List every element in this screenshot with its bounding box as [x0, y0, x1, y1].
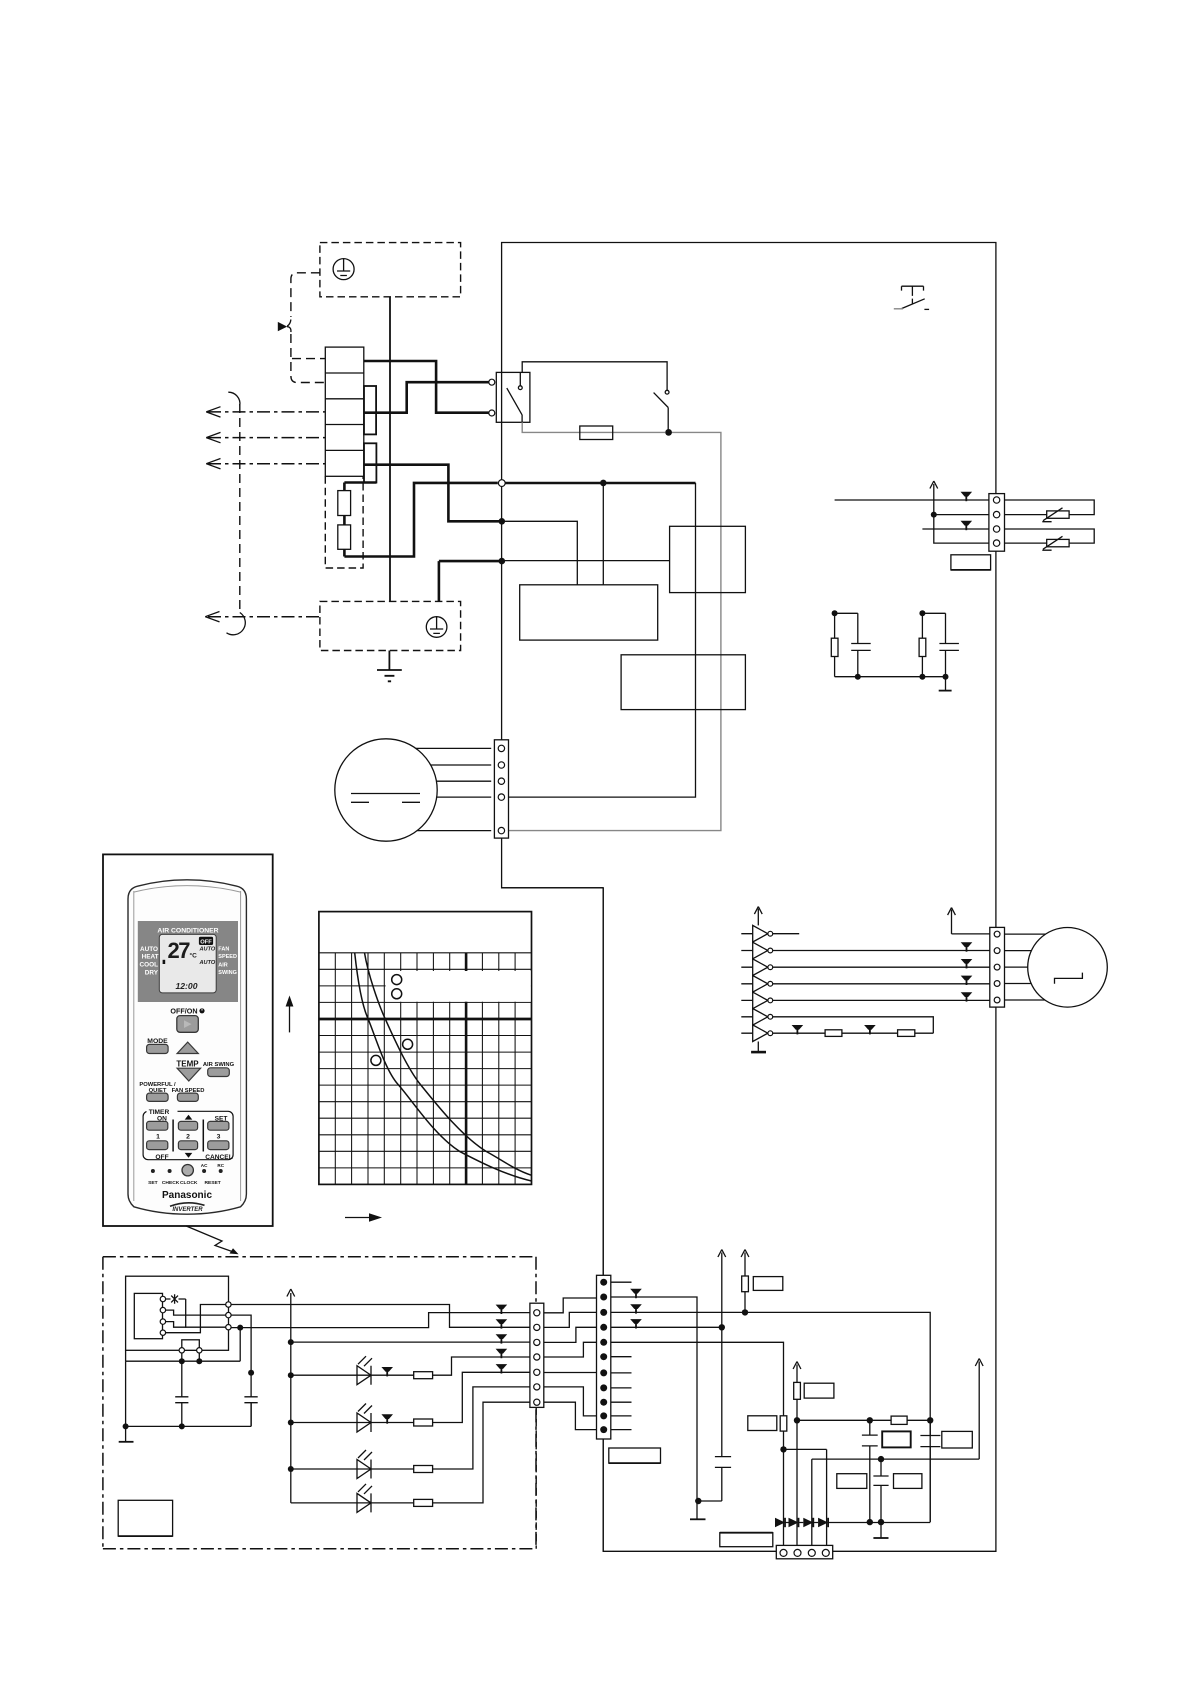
indoor unit PCB main outline [502, 243, 996, 1552]
separators [173, 1120, 203, 1152]
svg-text:RESET: RESET [204, 1180, 220, 1186]
junction switch/fuse node [665, 429, 672, 436]
svg-text:OFF: OFF [155, 1154, 168, 1161]
junction thermistor row2 [931, 512, 937, 518]
CN-MAIN pin4 wire [611, 1326, 722, 1328]
indoor unit earth dashed box (bottom) [320, 601, 461, 650]
junction arrowB/pin3 [742, 1309, 748, 1315]
protective earth symbol (top box) [333, 259, 354, 280]
wire L terminal to switch lower pin [364, 361, 489, 413]
svg-text:AUTO: AUTO [199, 946, 216, 952]
junction on PCB edge 2 [499, 558, 506, 565]
thermistor wires left [835, 500, 989, 543]
up mark [185, 1115, 193, 1120]
wire fuse chain to relay input [344, 483, 497, 557]
oscillator series resistor [891, 1416, 907, 1424]
junction cap return [695, 1498, 701, 1504]
snubber C1 [835, 613, 871, 676]
fuse F3 [580, 426, 613, 440]
operation range chart [319, 912, 532, 1185]
snubber ground [939, 677, 952, 691]
power relay switch box [496, 372, 530, 422]
vcc filter line [812, 1459, 979, 1522]
svg-text:CANCEL: CANCEL [205, 1154, 232, 1161]
LED resistor R4 [414, 1499, 433, 1506]
power box B2 [621, 655, 745, 710]
surge marker near CN [496, 1364, 508, 1369]
display connector CN-DISP [530, 1303, 544, 1407]
svg-text:2: 2 [186, 1134, 190, 1141]
TEMP down button [177, 1068, 201, 1081]
LED resistor R3 [414, 1466, 433, 1473]
filter cap pair [873, 1459, 888, 1522]
thermistor sensor loop 1 [1005, 500, 1095, 515]
snubber common rail [835, 676, 946, 678]
loop resistor Ra [825, 1030, 842, 1037]
svg-text:AIR SWING: AIR SWING [203, 1062, 235, 1068]
thermistor TH1 [1042, 508, 1069, 522]
junction arrowA/pin4 [719, 1324, 725, 1330]
POWERFUL button [147, 1093, 169, 1101]
svg-text:AIR CONDITIONER: AIR CONDITIONER [157, 928, 218, 935]
label box filter left [837, 1474, 867, 1489]
label box arrow B [753, 1277, 783, 1291]
wire module pin1 to CN pin2 [231, 1305, 530, 1328]
stepper motor connector CN-STM [990, 927, 1005, 1007]
snubber R1 [831, 613, 838, 676]
CN-MAIN pin2 wire to ground [611, 1297, 697, 1519]
dashed earth lead from top box to terminals [291, 273, 320, 317]
air swing stepper motor M2 [1028, 928, 1108, 1008]
loop resistor Rb [898, 1030, 915, 1037]
fuse F2 [338, 516, 351, 557]
svg-text:AIR: AIR [218, 962, 228, 968]
TEMP up button [177, 1042, 198, 1053]
svg-text:3: 3 [217, 1134, 221, 1141]
junction key node [780, 1446, 786, 1452]
LED D3 row [291, 1387, 530, 1469]
fan motor FM [335, 739, 437, 841]
LED resistor R1 [414, 1372, 433, 1379]
small service buttons [151, 1169, 155, 1173]
svg-text:RC: RC [217, 1163, 224, 1168]
buffer gate U7 [741, 1025, 772, 1042]
svg-text:INVERTER: INVERTER [172, 1207, 203, 1213]
relay pin upper [489, 379, 495, 385]
module edge pins [226, 1302, 231, 1307]
label box bottom-left [118, 1500, 172, 1536]
key matrix diodes [775, 1518, 930, 1527]
thermistor sensor loop 2 [1005, 529, 1095, 543]
label box reset resistor [804, 1383, 834, 1398]
chart x axis arrow [345, 1213, 382, 1222]
protective earth symbol (bottom box) [426, 617, 447, 638]
TIMER group box [143, 1108, 233, 1160]
buffer gate U5 [741, 992, 772, 1009]
main earth wire vertical [389, 297, 391, 602]
timer buttons row2 [147, 1141, 168, 1150]
MODE button [147, 1044, 169, 1053]
harness wires CN-DISP to CN-MAIN [544, 1298, 597, 1313]
field wiring arrow L [206, 407, 325, 417]
terminal tab plate 2 [364, 443, 376, 482]
buffer gate U2 [741, 942, 772, 959]
svg-text:27: 27 [168, 938, 191, 963]
IR photodiode mark [171, 1294, 178, 1304]
gate1 output stub [773, 933, 800, 935]
IC pin3 wire [166, 1322, 229, 1328]
wire module pin2 to filter [231, 1315, 251, 1373]
gray wire relay through fuse [509, 422, 721, 830]
buffer gate U3 [741, 959, 772, 976]
svg-text:AUTO: AUTO [140, 946, 158, 953]
svg-text:CHECK: CHECK [162, 1180, 180, 1186]
junction on PCB edge [499, 518, 506, 525]
svg-text:OFF: OFF [200, 939, 212, 945]
OFF/ON button [177, 1016, 199, 1033]
surge marker gate7 a [792, 1025, 804, 1030]
buffer gate U6 [741, 1009, 772, 1026]
cable bundle dashed line [227, 392, 246, 635]
IC pin1 wire [166, 1299, 186, 1328]
timer buttons row1 [147, 1121, 168, 1130]
wire N terminal to bus [364, 465, 502, 522]
wire mid terminal to switch upper pin [364, 382, 489, 413]
callout zigzag to receiver box [186, 1226, 239, 1254]
field splice connector symbol [278, 320, 291, 333]
svg-text:SET: SET [148, 1180, 158, 1186]
svg-text:12:00: 12:00 [176, 981, 198, 991]
fuse compartment dashed box [325, 476, 363, 568]
remote control frame [103, 854, 273, 1226]
power supply terminal block TB [325, 347, 364, 476]
surge marker stepper row [961, 976, 973, 981]
filter cap Ca [175, 1361, 188, 1426]
LED resistor R2 [414, 1419, 433, 1426]
IC pin2 wire [166, 1310, 229, 1315]
label box key resistor [748, 1416, 777, 1431]
snubber network left: junction [832, 610, 838, 616]
fan motor wires [416, 748, 491, 830]
cap on arrowA line [698, 1457, 731, 1501]
node open circle on PCB edge (fuse feed) [498, 480, 505, 487]
field wiring arrow N [206, 459, 325, 469]
svg-text:Panasonic: Panasonic [162, 1190, 212, 1201]
wire module pin3 to CN pin1 [231, 1313, 530, 1328]
CN-MAIN stub wires [611, 1282, 632, 1429]
buffer ground [751, 1042, 766, 1053]
buffer gate U1 [741, 925, 772, 942]
svg-text:FAN: FAN [218, 947, 229, 953]
svg-text:TEMP: TEMP [176, 1059, 199, 1068]
svg-text:AUTO: AUTO [199, 960, 216, 966]
receiver ground [119, 1426, 134, 1441]
relay box S1 [670, 526, 746, 592]
surge marker CN row1 [496, 1305, 508, 1310]
label box below CN-MAIN [609, 1448, 661, 1463]
resistor on key line [780, 1416, 787, 1431]
LED D1 row [291, 1357, 530, 1375]
thick wire to power boxes [505, 482, 695, 485]
label box filter right [894, 1474, 922, 1489]
wire drop to control box [602, 483, 604, 585]
gate6 to gate7 loop [773, 1017, 934, 1033]
module bottom terminals [179, 1340, 202, 1353]
field wiring arrow C [206, 432, 325, 442]
ground bus under module [126, 1350, 241, 1361]
chart y axis arrow [286, 996, 294, 1033]
LCD screen [159, 934, 216, 993]
CN-MAIN pin5 wire to key line [611, 1342, 784, 1546]
crystal load cap 1 [862, 1420, 878, 1522]
wires diodes 2-3 vertical feeds [797, 1523, 812, 1547]
buffer supply arrow [754, 907, 762, 926]
+V arrow at thermistor [930, 481, 938, 515]
earth supply dashed box (top) [320, 243, 461, 297]
receiver module outer box [126, 1276, 229, 1350]
snubber C2 [922, 613, 959, 676]
wire bus to control box [502, 521, 578, 585]
snubber network right: junction [919, 610, 925, 616]
stepper drive wires [773, 951, 990, 1001]
svg-text:AC: AC [201, 1163, 208, 1168]
relay pin lower [489, 410, 495, 416]
label box key block (thick top) [720, 1533, 773, 1547]
junction GND tap [237, 1325, 243, 1331]
receiver IC box [134, 1293, 162, 1338]
supply arrow B with resistor [741, 1250, 749, 1313]
AIR SWING button [208, 1068, 230, 1077]
LED D4 row [291, 1402, 530, 1503]
LED supply arrow [287, 1289, 295, 1503]
surge marker p4 [630, 1319, 642, 1324]
oscillator ground [873, 1522, 888, 1538]
key connector CN-KEY [776, 1545, 832, 1558]
chassis ground below earth box [377, 651, 402, 682]
stepper motor wires [1005, 934, 1046, 1000]
buffer gate U4 [741, 976, 772, 993]
bottom rail [126, 1361, 252, 1426]
filter cap Cb [244, 1373, 257, 1427]
reset branch arrow with resistor [793, 1362, 801, 1523]
thermal switch SW2 [654, 390, 669, 429]
cursor square [163, 960, 166, 964]
wire bus to relay box [502, 560, 670, 562]
svg-text:OFF/ON: OFF/ON [170, 1006, 197, 1015]
svg-text:DRY: DRY [145, 969, 159, 976]
thermal protector symbol [894, 286, 929, 309]
FAN SPEED button [177, 1093, 198, 1101]
control box B1 [520, 585, 658, 640]
svg-text:HEAT: HEAT [142, 953, 159, 960]
wire bus to earth box [439, 561, 502, 601]
svg-text:SPEED: SPEED [218, 954, 237, 960]
surge marker p3 [630, 1304, 642, 1309]
surge marker stepper row [961, 992, 973, 997]
surge marker CN row2 [496, 1319, 508, 1324]
OFF tag [199, 937, 213, 946]
CN-MAIN pin3 long wire [611, 1312, 930, 1522]
remote control body [128, 880, 246, 1214]
LED D2 row [291, 1372, 530, 1422]
surge marker row1 [961, 492, 973, 497]
main board connector CN-MAIN [597, 1275, 611, 1439]
surge marker near CN [496, 1349, 508, 1354]
svg-text:1: 1 [156, 1134, 160, 1141]
surge marker gate7 b [864, 1025, 876, 1030]
room/pipe thermistor connector CN-TH [989, 494, 1005, 552]
supply arrow C [975, 1359, 983, 1460]
svg-text:CLOCK: CLOCK [180, 1180, 198, 1186]
crystal X1 [882, 1431, 911, 1447]
svg-text:COOL: COOL [140, 962, 159, 969]
digital ground [690, 1518, 706, 1520]
snubber R2 [919, 613, 926, 676]
svg-text:°C: °C [190, 952, 198, 960]
fan motor connector CN-FM [494, 740, 508, 838]
junctions on diode bus [867, 1519, 873, 1525]
relay contact SW1 [507, 372, 522, 422]
surge marker stepper row [961, 942, 973, 947]
field earth arrow [205, 612, 320, 622]
dashed edge below CN-DISP [535, 1407, 537, 1548]
label box below CN-TH [951, 555, 991, 570]
fuse F1 [338, 483, 351, 516]
oscillator feed line [797, 1419, 930, 1421]
wire relay top loop [522, 362, 667, 390]
stepper +V arrow [948, 908, 990, 934]
indicator supply row [291, 1341, 530, 1343]
label box right of caps [942, 1431, 973, 1448]
IC pin4 wire [166, 1305, 229, 1333]
junction on thick wire [600, 480, 607, 487]
terminal tab plate 1 [364, 386, 376, 434]
LCD bezel [138, 921, 238, 1002]
svg-text:SWING: SWING [218, 970, 237, 976]
surge marker p2 [630, 1289, 642, 1294]
INVERTER logo [170, 1203, 205, 1213]
surge marker row3 [961, 521, 973, 526]
IC pins [160, 1296, 165, 1301]
key node branch to v4 [784, 1449, 827, 1546]
thermistor TH2 [1042, 536, 1069, 550]
crystal load cap 2 [920, 1420, 940, 1522]
display/receiver dashed enclosure [103, 1257, 536, 1549]
surge marker stepper row [961, 959, 973, 964]
supply arrow A (cap line) [718, 1250, 726, 1457]
